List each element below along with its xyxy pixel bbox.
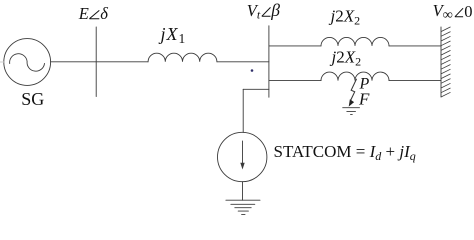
svg-text:β: β: [270, 0, 280, 20]
svg-text:F: F: [358, 90, 370, 109]
svg-text:0: 0: [464, 2, 472, 21]
svg-text:δ: δ: [100, 4, 108, 23]
svg-text:STATCOM = Id + jIq: STATCOM = Id + jIq: [274, 142, 416, 163]
svg-text:SG: SG: [21, 89, 44, 109]
svg-text:E: E: [78, 4, 89, 23]
